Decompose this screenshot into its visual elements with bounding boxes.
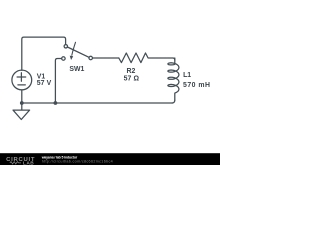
svg-text:L1: L1: [183, 72, 191, 79]
svg-text:57 V: 57 V: [37, 80, 52, 87]
svg-text:SW1: SW1: [69, 66, 84, 73]
svg-text:R2: R2: [127, 68, 136, 75]
svg-text:57 Ω: 57 Ω: [124, 76, 140, 83]
svg-text:570 mH: 570 mH: [183, 82, 211, 89]
svg-text:http://circuitlab.com/c8c662mc: http://circuitlab.com/c8c662mc16bc4: [42, 160, 113, 164]
svg-text:LAB: LAB: [23, 161, 34, 166]
